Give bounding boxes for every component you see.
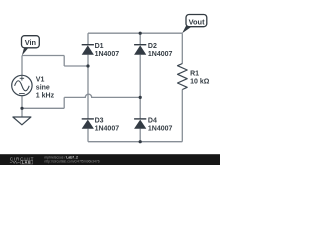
svg-text:R1: R1 bbox=[190, 71, 199, 78]
svg-text:nttp://circuitlab.com/c/47f5m9: nttp://circuitlab.com/c/47f5m96k3476 bbox=[44, 159, 99, 163]
junction source negative node bbox=[20, 107, 23, 110]
label R1 value bbox=[190, 71, 210, 86]
wire Vin jog vertical bbox=[63, 56, 65, 67]
svg-text:1N4007: 1N4007 bbox=[95, 126, 120, 133]
wire V1 bottom lead to ground bbox=[21, 96, 23, 117]
label V1 value bbox=[36, 76, 55, 99]
svg-text:Vin: Vin bbox=[25, 38, 37, 47]
wire Vin into left bridge midpoint bbox=[64, 65, 88, 67]
wire source negative horizontal bbox=[22, 107, 64, 109]
label D1 value bbox=[95, 43, 120, 58]
svg-text:1 kHz: 1 kHz bbox=[36, 93, 55, 100]
label D4 value bbox=[148, 118, 173, 133]
resistor R1 bbox=[178, 64, 188, 90]
voltage source V1 sine bbox=[12, 75, 32, 95]
wire source negative to right bridge midpoint with hop over left column bbox=[64, 94, 140, 97]
wire R1 upper lead bbox=[181, 33, 183, 63]
junction right bridge midpoint bbox=[139, 96, 142, 99]
svg-text:sine: sine bbox=[36, 85, 50, 92]
node flag Vout bbox=[182, 15, 207, 34]
svg-text:1N4007: 1N4007 bbox=[148, 51, 173, 58]
ground bbox=[13, 117, 31, 125]
svg-text:D4: D4 bbox=[148, 118, 157, 125]
svg-text:V1: V1 bbox=[36, 76, 45, 83]
svg-text:LAB: LAB bbox=[22, 161, 32, 165]
label D2 value bbox=[148, 43, 173, 58]
label D3 value bbox=[95, 118, 120, 133]
wire left bridge column lower (D3 anode to bottom rail) bbox=[87, 129, 89, 142]
svg-text:Vout: Vout bbox=[189, 18, 205, 27]
wire right bridge column middle (D2 anode to D4 cathode) bbox=[139, 55, 141, 119]
diode D3 bbox=[82, 119, 94, 129]
wire top rail (positive output net to Vout) bbox=[88, 32, 182, 34]
wire right bridge column lower (D4 anode to bottom rail) bbox=[139, 129, 141, 142]
svg-text:D1: D1 bbox=[95, 43, 104, 50]
junction Vin to left bridge midpoint bbox=[86, 64, 89, 67]
wire left bridge column middle (D1 anode to D3 cathode) bbox=[87, 55, 89, 119]
wire Vin horizontal from source top bbox=[22, 55, 64, 57]
diode D2 bbox=[134, 45, 146, 55]
wire R1 lower lead bbox=[181, 90, 183, 142]
diode D4 bbox=[134, 119, 146, 129]
node flag Vin bbox=[22, 36, 40, 56]
junction bottom rail at D4 bbox=[139, 140, 142, 143]
svg-text:10 kΩ: 10 kΩ bbox=[190, 78, 210, 85]
diode D1 bbox=[82, 45, 94, 55]
svg-text:1N4007: 1N4007 bbox=[95, 51, 120, 58]
watermark bbox=[0, 154, 220, 165]
wire bottom rail (negative output net) bbox=[88, 141, 182, 143]
svg-text:D2: D2 bbox=[148, 43, 157, 50]
svg-text:1N4007: 1N4007 bbox=[148, 126, 173, 133]
wire left bridge column upper (top rail to D1 cathode) bbox=[87, 33, 89, 45]
wire right bridge column upper (top rail to D2 cathode) bbox=[139, 33, 141, 45]
wire V1 top lead bbox=[21, 56, 23, 76]
svg-text:D3: D3 bbox=[95, 118, 104, 125]
junction top rail at D2 bbox=[139, 32, 142, 35]
wire source negative jog vertical bbox=[63, 97, 65, 108]
